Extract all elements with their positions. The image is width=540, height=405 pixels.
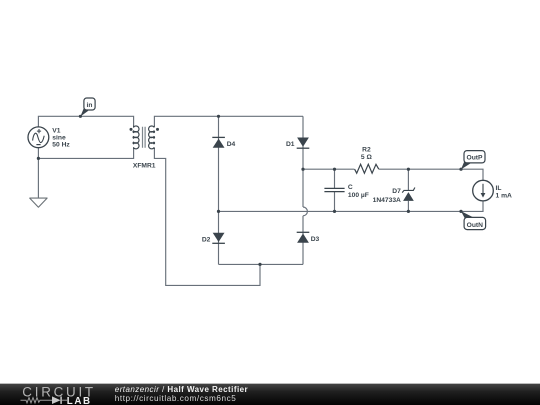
svg-text:XFMR1: XFMR1 bbox=[133, 162, 156, 169]
wire hop: right branch jumps over middle wire bbox=[303, 207, 307, 216]
junction: V1 bottom bbox=[37, 157, 40, 160]
transformer polarity dot left bbox=[130, 128, 133, 131]
svg-text:ertanzencir / Half Wave Rectif: ertanzencir / Half Wave Rectifier bbox=[115, 385, 248, 394]
diode D4 bbox=[212, 137, 235, 148]
ground bbox=[30, 198, 47, 207]
junction: OutN bbox=[459, 210, 462, 213]
wire primary top: V1 to XFMR1 bbox=[38, 116, 133, 127]
voltage source V1 bbox=[28, 127, 49, 148]
svg-text:100 µF: 100 µF bbox=[348, 192, 369, 199]
svg-text:C: C bbox=[348, 184, 353, 191]
node in flag bbox=[79, 115, 82, 118]
node OutN flag bbox=[461, 211, 486, 229]
wire zener stems bbox=[407, 169, 409, 211]
svg-text:OutP: OutP bbox=[467, 155, 484, 162]
footer bar bbox=[0, 383, 540, 405]
junction: bridge middle left bbox=[217, 210, 220, 213]
svg-text:1 mA: 1 mA bbox=[496, 193, 513, 200]
svg-text:D2: D2 bbox=[202, 236, 211, 243]
label V1 value bbox=[52, 127, 70, 148]
logo diode glyph bbox=[52, 396, 61, 404]
logo resistor glyph bbox=[21, 398, 53, 403]
junction: bridge top left bbox=[217, 115, 220, 118]
svg-text:D1: D1 bbox=[286, 141, 295, 148]
transformer XFMR1 bbox=[133, 126, 155, 149]
wire middle rail (OutN) bbox=[219, 201, 484, 212]
diode D3 bbox=[297, 232, 320, 243]
current source IL bbox=[473, 180, 512, 201]
junction: capacitor bottom bbox=[333, 210, 336, 213]
wire secondary bottom: XFMR1 to bridge bottom center bbox=[154, 148, 260, 285]
svg-text:in: in bbox=[87, 102, 93, 109]
svg-text:IL: IL bbox=[496, 185, 502, 192]
svg-text:D4: D4 bbox=[227, 141, 236, 148]
wire bridge right branch lower bbox=[302, 216, 304, 265]
label R2 value bbox=[361, 147, 373, 161]
wire top rail right (R2 to IL) bbox=[379, 169, 483, 180]
wire bridge right branch upper bbox=[302, 116, 304, 207]
junction: zener top bbox=[407, 168, 410, 171]
svg-text:OutN: OutN bbox=[467, 222, 484, 229]
svg-text:sine: sine bbox=[52, 135, 66, 142]
wire bridge bottom bbox=[219, 263, 304, 265]
node OutP flag bbox=[461, 151, 485, 170]
svg-text:R2: R2 bbox=[362, 147, 371, 154]
label C value bbox=[348, 184, 369, 199]
wire bridge left branch bbox=[218, 116, 220, 264]
svg-text:D3: D3 bbox=[311, 236, 320, 243]
svg-text:D7: D7 bbox=[392, 188, 401, 195]
junction: OutP bbox=[459, 168, 462, 171]
wire top rail left (to R2) bbox=[303, 168, 354, 170]
diode D1 bbox=[286, 138, 309, 149]
wire primary bottom: V1 to XFMR1 bbox=[38, 148, 133, 159]
svg-text:50 Hz: 50 Hz bbox=[52, 142, 70, 149]
junction: bridge bottom center bbox=[258, 263, 261, 266]
capacitor C bbox=[324, 188, 344, 191]
wire capacitor stems bbox=[334, 169, 336, 211]
transformer core bbox=[143, 127, 146, 148]
junction: capacitor top bbox=[333, 168, 336, 171]
junction: zener bottom bbox=[407, 210, 410, 213]
svg-text:V1: V1 bbox=[52, 127, 60, 134]
resistor R2 bbox=[355, 164, 379, 173]
svg-text:1N4733A: 1N4733A bbox=[373, 197, 401, 204]
svg-text:LAB: LAB bbox=[67, 396, 92, 405]
transformer polarity dot right bbox=[156, 128, 159, 131]
diode D2 bbox=[202, 233, 225, 244]
wire secondary top: XFMR1 to bridge bbox=[154, 116, 303, 126]
zener diode D7 bbox=[373, 188, 415, 204]
junction: bridge right OutP tap bbox=[301, 168, 304, 171]
svg-text:http://circuitlab.com/csm6nc5: http://circuitlab.com/csm6nc5 bbox=[115, 394, 237, 403]
svg-text:5 Ω: 5 Ω bbox=[361, 154, 373, 161]
wire ground stem bbox=[37, 158, 39, 198]
